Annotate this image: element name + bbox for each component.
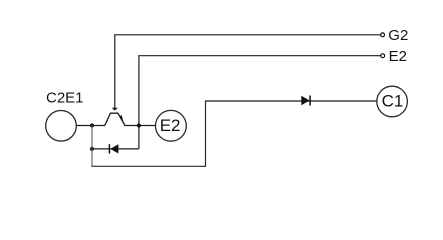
wire: right vertical up to C1 branch — [205, 101, 207, 167]
transistor Q1 emitter arrow on right slope — [119, 115, 123, 122]
diode D2 cathode bar — [108, 144, 110, 153]
terminal G2 open circle — [381, 33, 385, 37]
node junction right on main rail — [137, 123, 141, 127]
wire: C2E1 to transistor left base — [76, 125, 105, 127]
node junction on left vertical at diode branch — [90, 147, 94, 151]
node junction left on main rail — [90, 123, 94, 127]
terminal circle C2E1 — [46, 111, 77, 142]
wire: E2 horizontal rail — [139, 55, 381, 57]
svg-text:E2: E2 — [160, 116, 181, 135]
wire: bottom horizontal rail — [92, 165, 207, 167]
wire: antiparallel diode branch horizontal — [92, 148, 139, 150]
wire: E2 aux vertical down to diode wire — [138, 55, 140, 149]
svg-text:E2: E2 — [389, 48, 407, 65]
transistor Q1 body (IGBT bump) — [105, 113, 125, 125]
svg-text:G2: G2 — [388, 27, 408, 44]
diode D1 (points right) triangle — [301, 96, 309, 105]
wire: left vertical from main rail down to bottom rail — [91, 126, 93, 167]
terminal circle E2 — [156, 110, 187, 141]
terminal circle C1 — [377, 86, 408, 117]
terminal E2 open circle — [381, 54, 385, 58]
wire: transistor right base to E2 circle — [125, 125, 156, 127]
diode D1 cathode bar — [309, 96, 311, 106]
wire: G2 horizontal rail — [114, 34, 380, 36]
diode D2 (points left) triangle — [110, 144, 118, 153]
wire: gate vertical from G2 rail down to gate arrow — [114, 35, 116, 109]
wire: C1 branch horizontal — [206, 100, 378, 102]
transistor Q1 gate arrowhead — [112, 108, 118, 111]
svg-text:C2E1: C2E1 — [46, 90, 84, 107]
svg-text:C1: C1 — [382, 91, 404, 110]
